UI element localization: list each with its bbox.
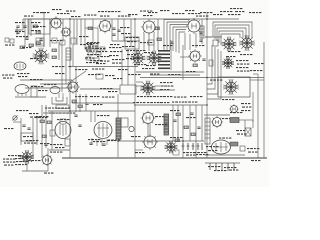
- label speaker: [131, 136, 140, 137]
- label V10: [97, 115, 109, 116]
- label right of S7 row1: [236, 60, 248, 61]
- label under: [135, 152, 144, 153]
- legend extra rows: [8, 155, 20, 156]
- wire ladder x178: [177, 105, 179, 141]
- label row above mid bus: [142, 68, 154, 69]
- wire mid bus AGC: [136, 71, 204, 73]
- component cluster discriminator: [86, 46, 105, 64]
- tuner area extra specks: [50, 40, 62, 41]
- specks audio bottom: [50, 144, 62, 145]
- wire y75 partial: [150, 74, 200, 76]
- label top left of V1: [24, 16, 33, 17]
- label rows far right: [126, 50, 135, 51]
- box right x120: [120, 85, 136, 94]
- capacitor C2: [39, 39, 42, 40]
- mid right small wires: [136, 81, 143, 83]
- wire sound IF bus: [68, 66, 138, 68]
- harness drops right of V5: [184, 33, 186, 50]
- box yoke: [218, 77, 250, 97]
- wire y90: [140, 89, 162, 91]
- wire nest lower l3: [207, 49, 218, 94]
- boxes under tube strip: [52, 38, 57, 43]
- wire input lead: [15, 29, 23, 31]
- wire nest lower l2: [207, 47, 215, 89]
- component cluster x70-85 y100-110: [72, 100, 77, 103]
- label ladder: [186, 117, 195, 118]
- wire drop x31: [30, 19, 32, 36]
- wire ladder x196: [195, 105, 197, 158]
- wire T6 lead: [239, 119, 253, 121]
- wire top right link: [205, 36, 222, 38]
- label right of pot: [29, 113, 38, 114]
- label above S2: [140, 42, 152, 43]
- extra label rows right of cluster: [110, 44, 119, 45]
- specks under V19: [230, 112, 242, 113]
- box component next to V9: [31, 86, 37, 97]
- capacitor C7: [199, 40, 202, 41]
- wire y89 extend: [80, 88, 120, 90]
- capacitor C5: [170, 42, 173, 43]
- transformer T4 output hatched bar: [116, 118, 121, 139]
- labels under cap bank: [183, 152, 195, 153]
- wire nest lower l1: [207, 45, 212, 84]
- wire vertical center divider: [134, 19, 136, 158]
- wire x171 mid: [170, 50, 172, 70]
- resistor R5 hatched: [155, 27, 160, 30]
- sound text rows mid: [75, 96, 87, 97]
- label right of S7 row4: [237, 71, 249, 72]
- wire bottom left baseline: [22, 170, 48, 172]
- wire y150 left: [49, 149, 70, 151]
- antenna input cluster: [15, 27, 21, 35]
- IF label column: [158, 50, 170, 69]
- box above S3: [148, 40, 154, 45]
- legend text rows: [15, 158, 27, 159]
- ladder extra caps: [173, 120, 176, 121]
- wire x95: [94, 111, 96, 122]
- label under sockets 1: [228, 51, 240, 52]
- box bandswitch SW1: [85, 28, 98, 49]
- wire V12 to V13: [147, 124, 149, 137]
- wire horiz section bus: [136, 104, 207, 106]
- electrodes V10: [98, 124, 100, 136]
- label volume: [16, 110, 28, 111]
- junction dots: [69, 18, 208, 142]
- wire top bus B+: [23, 18, 239, 20]
- tube V10 audio output: [94, 122, 112, 139]
- wire x52 audio: [51, 111, 53, 150]
- wire y86: [136, 85, 148, 87]
- box small component: [213, 40, 218, 46]
- pin row specks: [208, 166, 220, 167]
- extra caps under V10 row: [89, 143, 92, 144]
- wire x91: [90, 111, 92, 122]
- label plug: [247, 148, 259, 149]
- wire x122 x128: [121, 49, 123, 85]
- wire vertical x118: [117, 94, 119, 157]
- wire ladder x173: [172, 105, 174, 141]
- resistor ladder 2: [184, 126, 189, 129]
- wire nest n1: [213, 22, 252, 38]
- box RF input coil assembly: [29, 19, 50, 34]
- box right of V6: [209, 60, 213, 66]
- S2 S3 cluster specks: [133, 50, 145, 51]
- wire verticals mid: [75, 94, 77, 112]
- label mid right under bus: [210, 80, 222, 81]
- electrode marks V18: [16, 64, 18, 68]
- wire x62: [61, 42, 63, 92]
- text rows below sound bus: [75, 69, 87, 70]
- capacitor C4: [112, 34, 115, 35]
- terminal strip: [205, 118, 210, 144]
- wire ladder x183: [182, 105, 184, 158]
- labels right of flyback: [170, 110, 179, 111]
- resistor R8: [29, 44, 34, 47]
- capacitor bank C20: [183, 143, 202, 150]
- label right of S7 row3: [236, 67, 248, 68]
- antenna terminal block: [5, 38, 9, 42]
- label V11: [57, 119, 69, 120]
- capacitor hatch top-left row: [36, 38, 44, 46]
- wire nest n3: [217, 28, 246, 41]
- capacitor C13: [44, 144, 47, 145]
- wire S9 drop: [26, 163, 28, 171]
- extra verticals top mid strip: [73, 19, 75, 45]
- wire diagonal: [70, 71, 86, 82]
- label T3: [127, 41, 136, 42]
- hatch osc coil: [66, 50, 71, 52]
- label cluster TR3: [220, 11, 232, 12]
- wire nest n2: [215, 25, 249, 39]
- power pin row: [210, 163, 234, 171]
- box small: [96, 74, 103, 79]
- tube V9: [15, 85, 29, 94]
- switch contacts: [86, 43, 98, 44]
- wire drop x124: [123, 19, 125, 41]
- wire steps: [52, 97, 67, 104]
- capacitor C15: [16, 26, 19, 27]
- socket S9: [20, 150, 34, 164]
- tube V16: [41, 154, 53, 166]
- wire harness h5: [176, 30, 186, 53]
- top labels extra: [33, 12, 45, 13]
- resistor R6: [157, 38, 162, 41]
- label right border area: [250, 70, 262, 71]
- label cluster TR4: [228, 14, 240, 15]
- wire right mid vertical: [252, 92, 254, 122]
- low band label left rows: [2, 75, 14, 76]
- label right row: [172, 102, 184, 103]
- capacitor C6: [199, 32, 202, 33]
- wire x76 extend: [75, 66, 77, 94]
- tube socket S2: [131, 51, 146, 66]
- tube V18 horizontal envelope: [14, 62, 26, 70]
- tube socket S6: [239, 35, 255, 51]
- tube V13 horiz output: [142, 134, 158, 150]
- wire tuner bus: [20, 79, 72, 81]
- tube V11 audio amp: [55, 122, 71, 139]
- audio mid horizontals: [43, 112, 72, 114]
- wire y115 right: [204, 114, 230, 116]
- label V5 row1: [188, 13, 200, 14]
- small tube V19: [229, 104, 238, 113]
- label under sound bus: [92, 69, 104, 70]
- resistor R11: [40, 120, 45, 123]
- flyback T5 hatched bar: [164, 114, 169, 135]
- label under V6: [186, 71, 195, 72]
- wires bottom right verticals: [244, 120, 246, 128]
- label left of steps: [35, 117, 47, 118]
- tube V8a: [50, 87, 60, 94]
- resistor R10: [52, 56, 57, 59]
- box osc coil: [66, 48, 71, 60]
- specks mid row: [100, 88, 112, 89]
- wire bottom right bus 1: [205, 154, 245, 156]
- label sound output row: [49, 113, 61, 114]
- wire ladder x190: [189, 105, 191, 141]
- yoke socket S8: [223, 79, 239, 95]
- label under sockets 2: [240, 54, 252, 55]
- resistor R2: [36, 31, 41, 34]
- wire bottom chassis border: [62, 157, 267, 159]
- capacitor C3: [112, 28, 115, 29]
- tube V4 2nd IF: [141, 19, 157, 35]
- wire harness h2: [167, 22, 189, 50]
- wire drop x25: [24, 19, 26, 47]
- wire x73: [72, 45, 74, 66]
- wire y150 stub: [135, 149, 143, 151]
- tube socket S5: [222, 37, 237, 52]
- specks bandswitch: [87, 42, 99, 43]
- capacitor C8: [202, 59, 205, 60]
- marks right of V3: [120, 27, 129, 28]
- label above V15: [219, 138, 231, 139]
- tube socket S7: [222, 57, 234, 69]
- box right of T4: [121, 118, 128, 127]
- cap bank plates: [182, 145, 200, 147]
- potentiometer VOL: [13, 116, 17, 120]
- top-left antenna extra: [22, 19, 24, 30]
- wire yoke box top link: [250, 79, 264, 81]
- faint left specks: [4, 128, 13, 129]
- electrodes V11: [59, 125, 61, 135]
- box tall component: [200, 26, 204, 38]
- tube socket S1 tuner: [33, 48, 50, 65]
- capacitor C11: [74, 115, 77, 116]
- mark below: [44, 173, 53, 174]
- wire pot lead: [13, 121, 21, 123]
- marks in box: [23, 136, 32, 137]
- label cluster TR1: [200, 12, 212, 13]
- pins under tube row left: [58, 93, 60, 98]
- wire y84 tuner: [40, 83, 72, 85]
- label under yoke: [222, 99, 234, 100]
- specks right of V12: [155, 116, 164, 117]
- label rows right of cluster: [109, 47, 121, 48]
- capacitor C10: [27, 128, 30, 129]
- label cluster TR2: [213, 14, 222, 15]
- label V3: [98, 11, 110, 12]
- component at x67: [65, 139, 70, 146]
- label rows above: [26, 140, 38, 141]
- dense sound cluster fill: [85, 48, 97, 49]
- capacitor C14: [25, 38, 28, 39]
- speaker SP1: [129, 126, 134, 131]
- electrodes V15: [215, 143, 217, 151]
- wire drops under V4: [143, 33, 145, 51]
- top bus component marks: [71, 16, 80, 17]
- tube V12 horiz osc: [141, 111, 156, 126]
- label speaker field rows: [236, 130, 245, 131]
- resistor R1: [33, 25, 38, 28]
- text rows horiz section top: [137, 96, 149, 97]
- label right of S7 row2: [237, 64, 249, 65]
- capacitor C9: [22, 125, 25, 126]
- label bottom left mid: [50, 152, 62, 153]
- wire drop x77: [76, 19, 78, 45]
- cap C16: [117, 30, 120, 31]
- specks top right extra: [249, 12, 261, 13]
- wire x28: [27, 19, 29, 36]
- wire right border: [263, 42, 265, 158]
- label bottom right of border: [251, 160, 260, 161]
- IF harness labels: [163, 45, 172, 46]
- resistor ladder 3: [175, 139, 180, 142]
- resistor R9: [52, 49, 57, 52]
- box IF can T3: [125, 37, 139, 49]
- pins under V10: [91, 138, 93, 145]
- wire tuner bus 2: [25, 87, 72, 89]
- wire vertical x21: [20, 118, 22, 145]
- sound section extra verticals: [58, 42, 60, 60]
- damper socket S10: [165, 141, 178, 154]
- capacitor C1: [23, 26, 26, 27]
- label under box: [24, 143, 36, 144]
- wire x37: [36, 118, 38, 145]
- tube V7 sound IF: [66, 80, 80, 94]
- wire drop x44: [43, 12, 45, 47]
- wire nest n5: [221, 34, 240, 45]
- label: [36, 116, 48, 117]
- wire x171: [170, 40, 172, 50]
- labels right of S4: [160, 82, 172, 83]
- wire right border upper: [257, 74, 259, 158]
- resistor under V6: [193, 64, 198, 67]
- dark blob right of V15: [230, 142, 238, 146]
- tube V3 1st IF: [98, 19, 113, 34]
- wire x33: [32, 118, 34, 158]
- wire drop x131: [130, 19, 132, 47]
- ladder hatch small: [173, 150, 179, 155]
- pin row extra specks: [214, 170, 226, 171]
- tube V2 mixer: [61, 27, 72, 38]
- wire nest n4: [219, 31, 243, 43]
- resistor R4: [88, 27, 93, 30]
- wire harness h1: [164, 20, 190, 51]
- box small audio: [60, 119, 66, 124]
- tube socket S4: [141, 81, 156, 96]
- label cluster TR5: [235, 11, 244, 12]
- box with X speaker SP2: [245, 128, 251, 136]
- pins V9: [17, 93, 19, 96]
- box above: [56, 105, 69, 109]
- wire ladder x202: [201, 105, 203, 141]
- label above audio row: [45, 108, 57, 109]
- box audio component: [21, 133, 33, 141]
- label under C14: [22, 47, 31, 48]
- cap bank labels lower: [186, 155, 195, 156]
- wire mid bus B: [140, 77, 264, 79]
- wire harness h4: [173, 27, 187, 51]
- wire audio B+ y103: [72, 102, 135, 104]
- label above S7: [226, 56, 235, 57]
- wire vertical V-divider 2: [206, 12, 208, 158]
- label under pins: [93, 141, 105, 142]
- wire nest lower l4: [207, 51, 221, 99]
- wire drop x50: [49, 19, 51, 47]
- tube V15 power rect envelope: [212, 140, 231, 154]
- capacitor C12: [78, 125, 81, 126]
- power area extra: [206, 146, 218, 147]
- wire drop x85: [84, 19, 86, 28]
- wire vertical x48 low: [47, 148, 49, 171]
- extra top labels: [57, 13, 69, 14]
- box audio small: [50, 130, 55, 136]
- wire drop x93: [92, 19, 94, 45]
- wire row y92: [15, 96, 46, 98]
- wire drop x158: [157, 19, 159, 50]
- specks inside RF box: [31, 22, 40, 23]
- wire harness h3: [170, 25, 188, 51]
- bottom mid labels: [88, 139, 100, 140]
- wire sound bus: [48, 110, 135, 112]
- label left specks: [15, 31, 24, 32]
- wire lower bus: [118, 140, 204, 142]
- wire drop x63: [62, 19, 64, 42]
- component row y74: [88, 74, 100, 75]
- resistor R13: [47, 121, 52, 124]
- wire horiz y41: [112, 40, 140, 42]
- wire vertical V-divider 1: [69, 19, 71, 158]
- fuse component: [240, 146, 245, 151]
- wire bus corner: [253, 73, 258, 75]
- label above V6: [192, 45, 204, 46]
- wire x183: [182, 45, 184, 80]
- tube V6: [188, 49, 202, 63]
- hatch in tall box: [200, 28, 204, 30]
- wire x66: [65, 60, 67, 84]
- node T2 label: [52, 9, 61, 10]
- wire drop x112: [111, 19, 113, 41]
- convergence legend extension: [3, 159, 15, 160]
- label low band: [17, 73, 29, 74]
- tube V5 3rd IF: [186, 18, 202, 34]
- tube V14 rectifier: [211, 116, 223, 128]
- wire drop x202: [201, 19, 203, 44]
- node T1 label: [40, 12, 49, 13]
- resistor R12: [42, 135, 47, 138]
- wire x118 top: [117, 19, 119, 40]
- wire y57 stub: [180, 56, 190, 58]
- wire bottom right bus 2: [205, 162, 240, 164]
- transformer T6 small dark: [230, 118, 239, 123]
- resistor R3: [36, 42, 41, 45]
- tube V1 RF amp: [49, 16, 63, 30]
- tube socket S3: [147, 51, 162, 66]
- label V4: [143, 15, 152, 16]
- resistor R7: [20, 46, 25, 49]
- component top mark: [128, 14, 137, 15]
